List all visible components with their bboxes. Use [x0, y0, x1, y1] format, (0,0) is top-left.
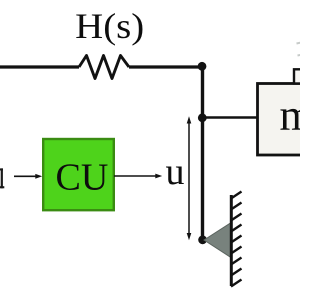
- node A junction dot: [198, 62, 207, 71]
- tab on top of mass box: [294, 69, 320, 83]
- mass m box: [258, 84, 320, 156]
- label H(s): [75, 6, 144, 46]
- wire node B to mass box: [202, 116, 258, 119]
- ground hatching: [231, 192, 242, 287]
- svg-text:CU: CU: [56, 157, 109, 199]
- spring H(s) zigzag: [79, 56, 129, 79]
- svg-text:u: u: [166, 151, 185, 193]
- arrow CU output u: [114, 174, 162, 179]
- label u: [166, 151, 185, 193]
- node C pivot dot: [198, 235, 207, 244]
- svg-text:m: m: [280, 91, 301, 140]
- controller CU box: [43, 139, 114, 210]
- arrow q into CU: [14, 174, 42, 179]
- double-headed measurement arrow: [187, 116, 192, 240]
- faint cropped marks above tab: [297, 43, 302, 56]
- ground wall line: [230, 195, 233, 286]
- svg-text:H(s): H(s): [75, 6, 144, 46]
- label CU: [56, 157, 109, 199]
- pivot triangle: [204, 223, 231, 258]
- label m: [280, 91, 314, 140]
- node B junction dot: [198, 113, 207, 122]
- wire vertical main rod: [201, 66, 204, 240]
- wire spring to node A: [129, 65, 202, 68]
- wire left lead into spring: [0, 65, 79, 68]
- label q cropped at left edge: [0, 168, 4, 188]
